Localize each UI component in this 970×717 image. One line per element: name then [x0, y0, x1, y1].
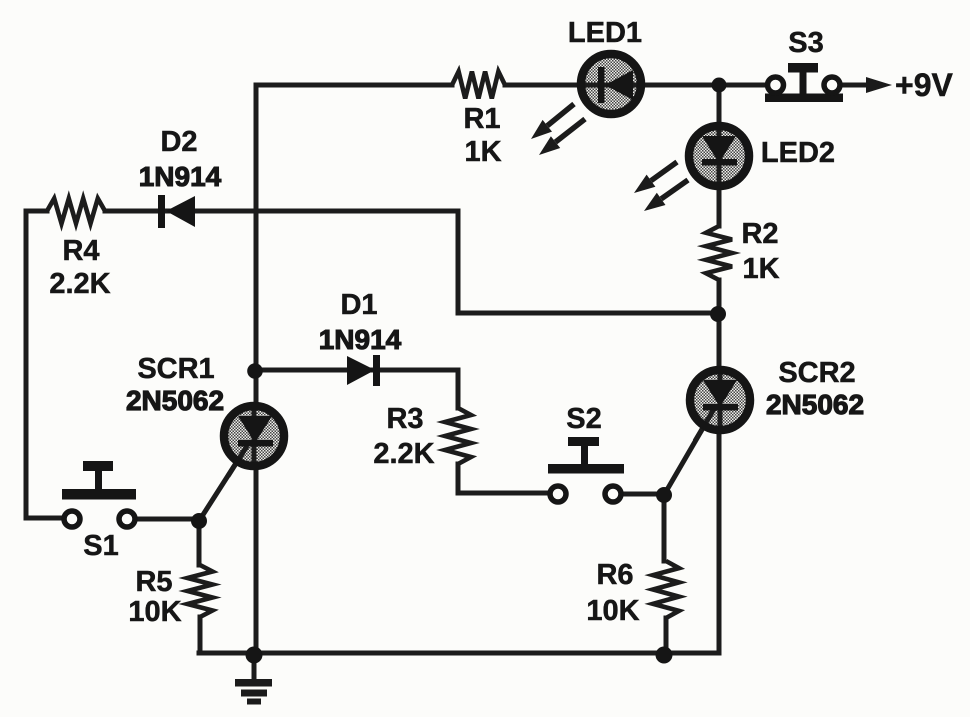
svg-text:LED2: LED2 [761, 137, 835, 169]
svg-text:1K: 1K [464, 136, 501, 168]
svg-text:+9V: +9V [895, 67, 953, 103]
svg-text:R5: R5 [135, 566, 172, 598]
svg-text:SCR2: SCR2 [778, 357, 855, 389]
svg-text:1K: 1K [742, 253, 779, 285]
svg-text:D2: D2 [160, 126, 197, 158]
svg-text:2.2K: 2.2K [373, 438, 434, 470]
svg-text:R1: R1 [463, 103, 500, 135]
svg-text:SCR1: SCR1 [137, 353, 214, 385]
svg-text:1N914: 1N914 [319, 324, 402, 355]
svg-text:10K: 10K [586, 595, 639, 627]
svg-text:R6: R6 [596, 559, 633, 591]
svg-text:LED1: LED1 [568, 17, 642, 49]
svg-text:2N5062: 2N5062 [126, 385, 224, 416]
svg-text:R4: R4 [62, 235, 99, 267]
svg-text:S1: S1 [83, 530, 118, 562]
svg-text:R2: R2 [741, 218, 778, 250]
svg-text:1N914: 1N914 [139, 161, 222, 192]
svg-text:2N5062: 2N5062 [766, 389, 864, 420]
svg-text:R3: R3 [386, 403, 423, 435]
svg-text:S3: S3 [788, 27, 823, 59]
svg-text:10K: 10K [128, 596, 181, 628]
svg-text:2.2K: 2.2K [49, 268, 110, 300]
svg-text:D1: D1 [340, 289, 377, 321]
svg-text:S2: S2 [566, 403, 601, 435]
